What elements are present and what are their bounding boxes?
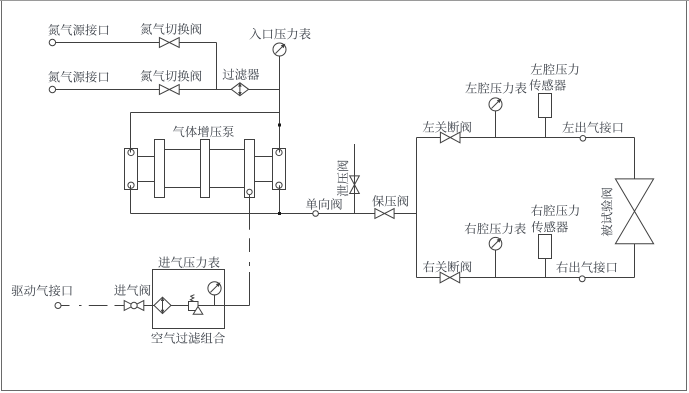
pump cylinder bar 3: [245, 140, 255, 198]
sensor right 右腔压力传感器 (rect): [539, 235, 552, 259]
wire (pump right cap down): [279, 185, 281, 213]
filter F2 (diamond): [154, 297, 171, 313]
right-shutoff label: [423, 261, 471, 272]
drawing frame: [0, 0, 689, 2]
right-gauge label: [465, 223, 526, 235]
left-outlet label: [562, 122, 622, 133]
valve-under-test label (rotated): [601, 188, 612, 237]
pump bar3 port circle: [247, 189, 252, 194]
pump outer rail bottom b: [210, 187, 245, 189]
valve N2 switch 2 (bowtie): [159, 85, 179, 95]
pump outer rail top a: [165, 149, 201, 151]
wire: [56, 89, 160, 91]
wire (gauge stem down to pump): [279, 56, 281, 153]
pump cylinder bar 1: [155, 140, 165, 198]
drive-gas label: [12, 285, 72, 297]
wire (dot): [79, 305, 82, 307]
left-shutoff label: [423, 121, 472, 132]
left-gauge label: [465, 82, 526, 94]
check-valve label: [306, 198, 342, 209]
wire: [179, 42, 216, 44]
connector left outlet 左出气接口 (circle): [580, 136, 586, 142]
gauge intake 进气压力表: [208, 282, 221, 295]
pump outer rail bottom a: [165, 187, 201, 189]
gauge left 左腔压力表: [489, 98, 502, 111]
relief valve vent line: [354, 144, 356, 214]
wire: [171, 305, 188, 307]
connector N2 source 1 (circle): [49, 39, 55, 45]
holding-valve label: [372, 195, 408, 206]
n2-source label 2: [48, 71, 108, 82]
right-outlet label: [556, 261, 616, 272]
pump left cap bolt circles: [128, 149, 134, 155]
inlet-gauge label: [250, 28, 311, 40]
wire (pump left cap down): [130, 185, 132, 213]
regulator spring arrow: [190, 296, 193, 301]
pump inner rail top-right: [255, 156, 273, 158]
sensor left 左腔压力传感器 (rect): [539, 94, 552, 118]
right-sensor label line2: [531, 221, 568, 232]
wire: [417, 137, 441, 139]
n2-switch-valve label 1: [141, 23, 202, 34]
valve left shutoff 左关断阀 (bowtie): [440, 132, 460, 143]
wire (left gauge stem): [495, 111, 497, 138]
wire (intake gauge stem): [214, 295, 216, 306]
valve N2 switch 1 (bowtie): [159, 38, 179, 48]
wire: [249, 272, 251, 306]
wire: [115, 305, 125, 307]
left-sensor label line1: [531, 64, 579, 75]
regulator drain triangle: [193, 307, 203, 315]
intake valve 进气阀 (bowtie with ball): [124, 301, 144, 311]
wire: [131, 213, 313, 215]
wire: [198, 305, 250, 307]
wire (dash): [249, 262, 251, 266]
wire: [634, 138, 636, 179]
gauge inlet 入口压力表: [273, 43, 286, 56]
wire (right gauge stem): [495, 250, 497, 278]
wire: [460, 277, 635, 279]
wire: [131, 112, 280, 114]
pump left end-cap: [125, 149, 138, 190]
wire: [634, 244, 636, 278]
filter label: [223, 69, 260, 80]
pump inner rail top-left: [138, 156, 155, 158]
intake-gauge label: [158, 257, 219, 269]
pump outer rail top b: [210, 149, 245, 151]
relief-valve label (rotated): [337, 160, 348, 196]
wire (dash-dot segment): [61, 305, 70, 307]
junction dot: [278, 124, 281, 127]
booster-pump label: [173, 126, 234, 137]
wire: [249, 195, 251, 230]
pump right cap bolt circles: [276, 149, 282, 155]
junction dot: [278, 212, 281, 215]
wire: [460, 137, 635, 139]
check valve 单向阀 (circle): [313, 211, 319, 217]
wire: [318, 213, 375, 215]
air filter unit box 空气过滤组合: [153, 270, 225, 329]
wire (left sensor stem): [545, 118, 547, 138]
pump inner rail bottom-left: [138, 181, 155, 183]
wire: [130, 113, 132, 153]
holding valve 保压阀 (bowtie): [375, 209, 394, 219]
relief valve 泄压阀 (vertical bowtie): [350, 176, 360, 194]
filter F1 过滤器 (diamond): [231, 83, 248, 96]
wire (vertical trunk): [416, 138, 418, 278]
n2-source label 1: [48, 24, 108, 35]
wire: [144, 305, 154, 307]
pump right end-cap: [273, 149, 286, 190]
valve under test 被试验阀 (large bowtie): [615, 179, 653, 244]
wire (corner down): [216, 43, 218, 90]
wire (right sensor stem): [545, 259, 547, 278]
wire: [394, 213, 416, 215]
n2-switch-valve label 2: [141, 70, 202, 81]
regulator (square): [189, 302, 199, 311]
pump cylinder bar 2: [201, 140, 210, 198]
pump inner rail bottom-right: [255, 181, 273, 183]
wire: [249, 89, 280, 91]
air-filter-unit label: [151, 332, 224, 344]
wire: [56, 42, 160, 44]
wire (dash): [89, 305, 108, 307]
left-sensor label line2: [529, 79, 566, 90]
connector drive gas 驱动气接口 (circle): [55, 303, 61, 309]
gauge right 右腔压力表: [489, 237, 502, 250]
connector N2 source 2 (circle): [49, 86, 55, 92]
right-sensor label line1: [531, 205, 579, 216]
wire: [179, 89, 231, 91]
intake-valve label: [114, 284, 150, 295]
connector right outlet 右出气接口 (circle): [579, 276, 585, 282]
wire (dash): [249, 238, 251, 252]
valve right shutoff 右关断阀 (bowtie): [440, 272, 460, 283]
wire: [417, 277, 441, 279]
